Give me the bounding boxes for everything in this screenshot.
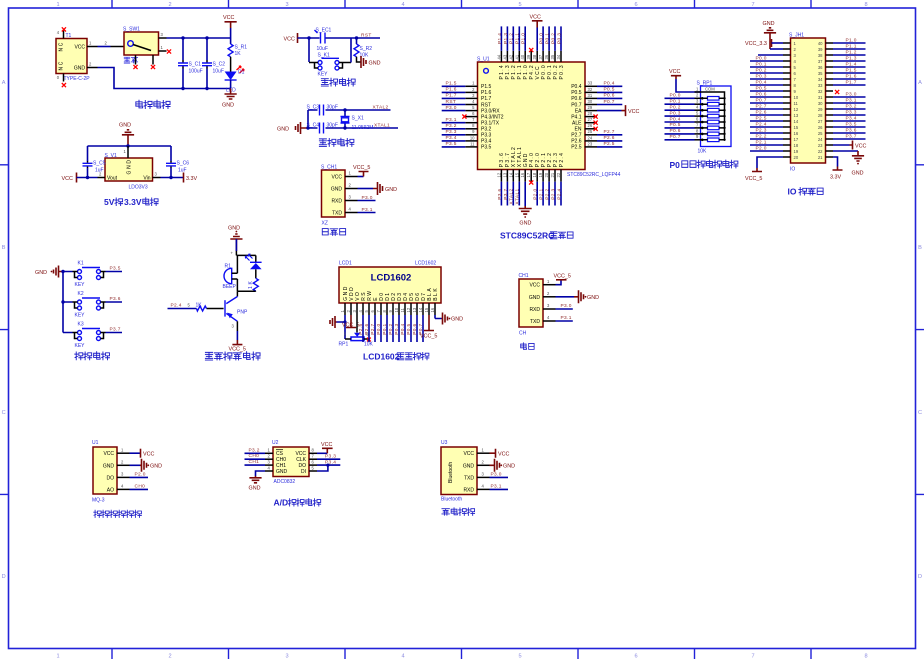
svg-text:27: 27 <box>588 117 593 122</box>
wire <box>512 182 514 206</box>
svg-text:S_C4: S_C4 <box>307 123 320 129</box>
svg-text:GND: GND <box>331 187 343 193</box>
svg-text:S_C3: S_C3 <box>307 105 320 111</box>
JH1 pin 7 <box>783 78 791 80</box>
V1 right pin <box>153 177 161 179</box>
svg-text:STC89C52RC: STC89C52RC <box>500 231 554 241</box>
wire <box>597 134 622 136</box>
MCU pin 23 P2.5 <box>585 146 598 148</box>
MCU pin 25 P2.7 <box>585 134 598 136</box>
JH1 pin 28 <box>826 114 834 116</box>
MCU pin 38 VCC <box>536 51 538 62</box>
svg-text:XTAL2: XTAL2 <box>373 105 389 111</box>
svg-text:P3.2: P3.2 <box>846 103 857 109</box>
wire <box>750 144 783 146</box>
resistor 1K (vertical) <box>253 278 258 291</box>
svg-text:P2.6: P2.6 <box>604 135 615 141</box>
svg-text:P3.1: P3.1 <box>491 484 502 490</box>
power port VCC <box>850 141 853 150</box>
svg-text:GND: GND <box>150 464 162 470</box>
svg-text:P3.1/TX: P3.1/TX <box>481 121 500 127</box>
svg-text:8: 8 <box>864 2 867 8</box>
svg-text:18: 18 <box>794 143 799 148</box>
svg-text:8: 8 <box>864 654 867 659</box>
svg-text:U2: U2 <box>272 440 279 446</box>
JH1 pin 25 <box>826 132 834 134</box>
wire <box>368 315 370 342</box>
wire <box>750 78 783 80</box>
capacitor S_C1 100uF <box>182 38 184 60</box>
svg-text:P1.6: P1.6 <box>846 73 857 79</box>
wire <box>833 42 866 44</box>
svg-text:P2.1: P2.1 <box>756 139 767 145</box>
svg-text:S_JH1: S_JH1 <box>789 33 804 39</box>
MCU pin 12 P3.6 <box>500 170 502 182</box>
svg-text:P3.0: P3.0 <box>362 195 373 201</box>
wire <box>506 26 508 50</box>
JH1 pin 20 <box>783 156 791 158</box>
power port VCC_5 <box>556 280 562 285</box>
T1 top pin <box>63 31 65 39</box>
svg-text:20: 20 <box>544 172 549 177</box>
svg-text:1: 1 <box>56 2 59 8</box>
svg-text:B: B <box>2 245 6 251</box>
svg-text:P3.5: P3.5 <box>481 145 492 151</box>
RP1 pin 7 <box>695 127 701 129</box>
wire <box>833 72 866 74</box>
title 蓝牙模块 <box>442 509 449 515</box>
svg-text:TXD: TXD <box>464 475 474 481</box>
U1 pin 2 <box>117 464 130 466</box>
svg-text:GND: GND <box>519 221 531 227</box>
svg-text:10K: 10K <box>698 149 708 155</box>
svg-text:P2.4: P2.4 <box>556 189 562 200</box>
svg-text:COM: COM <box>705 87 715 92</box>
wire <box>554 26 556 50</box>
svg-text:P0.0: P0.0 <box>376 324 382 335</box>
svg-text:Bluetooth: Bluetooth <box>441 497 462 503</box>
wire <box>548 182 550 206</box>
svg-text:P1.2: P1.2 <box>509 33 515 44</box>
svg-text:VCC: VCC <box>529 283 540 289</box>
svg-text:P2.3: P2.3 <box>756 127 767 133</box>
wire <box>410 315 412 342</box>
svg-text:36: 36 <box>818 65 823 70</box>
wire <box>750 114 783 116</box>
wire pin23 to VCC <box>833 144 850 146</box>
pin-1 marker <box>484 68 489 73</box>
connector T1 TYPE-C-2P <box>56 39 87 74</box>
svg-text:29: 29 <box>588 105 593 110</box>
svg-text:P0.3: P0.3 <box>670 110 681 116</box>
svg-text:6: 6 <box>634 2 637 8</box>
MCU pin 29 EA <box>585 110 598 112</box>
wire <box>833 108 866 110</box>
MCU pin 13 P3.7 <box>506 170 508 182</box>
svg-text:31: 31 <box>818 95 823 100</box>
svg-text:40: 40 <box>520 54 525 59</box>
svg-text:38: 38 <box>532 54 537 59</box>
wire <box>597 85 622 87</box>
svg-text:1: 1 <box>56 654 59 659</box>
svg-text:VCC: VCC <box>74 45 85 51</box>
wire <box>665 127 695 129</box>
svg-text:XTAL2: XTAL2 <box>509 189 515 205</box>
svg-text:PNP: PNP <box>237 310 248 316</box>
wire <box>422 315 424 342</box>
svg-text:P0.6: P0.6 <box>571 96 582 102</box>
JH1 pin 27 <box>826 120 834 122</box>
svg-text:S_R1: S_R1 <box>235 45 248 51</box>
svg-text:P3.3: P3.3 <box>846 109 857 115</box>
wire <box>833 120 866 122</box>
ground GND <box>490 459 500 472</box>
transistor Q1 PNP <box>224 300 226 316</box>
svg-text:19: 19 <box>794 149 799 154</box>
wire <box>392 315 394 342</box>
svg-text:VCC: VCC <box>62 176 73 182</box>
svg-text:P0.3: P0.3 <box>756 73 767 79</box>
JH1 pin 38 <box>826 54 834 56</box>
svg-text:P0.6: P0.6 <box>604 93 615 99</box>
svg-text:P2.6: P2.6 <box>364 324 370 335</box>
svg-text:P2.0: P2.0 <box>533 189 539 200</box>
wire <box>168 308 197 310</box>
wire <box>665 109 695 111</box>
svg-text:4: 4 <box>401 654 404 659</box>
MCU pin 15 XTAL1 <box>518 170 520 182</box>
wire pin21 to 3.3V <box>833 157 838 167</box>
MCU pin 35 P0.2 <box>554 51 556 62</box>
svg-text:CH0: CH0 <box>135 484 146 490</box>
JH1 pin 17 <box>783 138 791 140</box>
svg-text:P3.0: P3.0 <box>561 303 572 309</box>
svg-text:P3.1: P3.1 <box>561 315 572 321</box>
svg-text:P3.1: P3.1 <box>846 97 857 103</box>
svg-text:P2.4: P2.4 <box>559 152 565 168</box>
svg-text:GND: GND <box>276 469 288 475</box>
svg-text:33: 33 <box>818 83 823 88</box>
wire left drop <box>308 38 310 62</box>
wire <box>442 97 466 99</box>
JH1 pin 11 <box>783 102 791 104</box>
MCU pin 14 XTAL2 <box>512 170 514 182</box>
svg-text:C: C <box>918 410 922 416</box>
svg-text:IO: IO <box>790 167 795 173</box>
svg-text:XTAL1: XTAL1 <box>374 123 390 129</box>
LED branch <box>255 255 257 262</box>
svg-text:7: 7 <box>751 2 754 8</box>
wire <box>750 138 783 140</box>
svg-text:3.3V: 3.3V <box>124 197 142 207</box>
wire <box>548 26 550 50</box>
wire to VCC power port <box>597 110 622 112</box>
svg-text:BLK: BLK <box>433 287 439 301</box>
svg-text:39: 39 <box>818 47 823 52</box>
svg-text:P0.0: P0.0 <box>756 55 767 61</box>
JH1 pin 29 <box>826 108 834 110</box>
svg-text:P0: P0 <box>670 160 681 170</box>
svg-text:LDO3V3: LDO3V3 <box>129 185 148 191</box>
JH1 pin 30 <box>826 102 834 104</box>
wire <box>750 108 783 110</box>
svg-text:RST: RST <box>446 99 457 105</box>
power port VCC_5 (pin2 VDD) <box>346 315 356 328</box>
svg-text:P0.7: P0.7 <box>571 102 582 108</box>
svg-text:5: 5 <box>518 2 521 8</box>
title 按键电路 <box>75 352 110 360</box>
svg-text:P0.2: P0.2 <box>550 33 556 44</box>
no-ERC cross <box>594 115 598 119</box>
JH1 pin 6 <box>783 72 791 74</box>
svg-text:VCC_5: VCC_5 <box>353 165 370 171</box>
svg-text:TXD: TXD <box>530 319 540 325</box>
MCU pin 22 P2.4 <box>560 170 562 182</box>
svg-text:P2.3: P2.3 <box>550 189 556 200</box>
svg-text:P2.7: P2.7 <box>604 129 615 135</box>
ground GND sideways <box>574 290 584 303</box>
LED D1 <box>225 72 237 81</box>
svg-text:P0.4: P0.4 <box>400 324 406 335</box>
JH1 pin 13 <box>783 114 791 116</box>
svg-text:36: 36 <box>544 54 549 59</box>
wire <box>536 182 538 206</box>
wire <box>416 315 418 342</box>
wire from VCC to RP1 common <box>676 79 701 92</box>
no-ERC cross <box>594 121 598 125</box>
svg-text:D: D <box>2 574 6 580</box>
svg-text:Vout: Vout <box>107 176 118 182</box>
svg-text:P0.6: P0.6 <box>412 324 418 335</box>
U3 pin 2 <box>477 464 490 466</box>
svg-text:1K: 1K <box>235 51 242 57</box>
wire pin20 to VCC_5 <box>757 157 783 168</box>
resistor S_R1 1K <box>228 44 233 57</box>
wire pin2 to GND <box>556 296 575 298</box>
svg-text:P1.7: P1.7 <box>446 93 457 99</box>
svg-text:11: 11 <box>400 307 405 312</box>
svg-text:VCC_5: VCC_5 <box>745 176 762 182</box>
wire pin3 <box>130 476 149 478</box>
svg-text:VCC: VCC <box>530 15 541 21</box>
svg-text:P2.7: P2.7 <box>370 324 376 335</box>
svg-text:GND: GND <box>385 187 397 193</box>
MCU pin 41 P1.1 <box>518 51 520 62</box>
svg-text:D: D <box>918 574 922 580</box>
svg-text:S_C6: S_C6 <box>177 161 190 167</box>
svg-text:P3.6: P3.6 <box>846 127 857 133</box>
JH1 pin 5 <box>783 66 791 68</box>
svg-text:S_V1: S_V1 <box>105 153 117 159</box>
svg-text:11.0592M: 11.0592M <box>352 125 374 131</box>
resistor element 1 of RP1 <box>708 97 720 101</box>
U2 pin 6 <box>309 464 317 466</box>
svg-text:25: 25 <box>588 129 593 134</box>
wire rail <box>298 37 381 39</box>
svg-text:RXD: RXD <box>529 307 540 313</box>
svg-text:P0.5: P0.5 <box>604 87 615 93</box>
svg-text:VCC: VCC <box>628 109 639 115</box>
wire <box>560 182 562 206</box>
wire <box>750 96 783 98</box>
ground GND <box>225 89 237 100</box>
svg-text:P2.5: P2.5 <box>604 141 615 147</box>
svg-text:GND: GND <box>503 464 515 470</box>
svg-text:P0.1: P0.1 <box>382 324 388 335</box>
svg-text:U3: U3 <box>441 440 448 446</box>
svg-text:P0.3: P0.3 <box>556 33 562 44</box>
svg-text:P1.5: P1.5 <box>446 81 457 87</box>
svg-text:KEY: KEY <box>75 313 86 319</box>
svg-text:GND: GND <box>74 66 86 72</box>
svg-text:Vin: Vin <box>143 176 150 182</box>
MCU pin 32 P0.5 <box>585 91 598 93</box>
svg-text:P0.4: P0.4 <box>604 81 615 87</box>
wire pin4 to GND <box>256 471 266 476</box>
wire pin6 <box>317 464 340 466</box>
svg-text:29: 29 <box>818 107 823 112</box>
svg-text:P2.1: P2.1 <box>539 189 545 200</box>
svg-text:17: 17 <box>526 172 531 177</box>
svg-text:P3.1: P3.1 <box>446 117 457 123</box>
resistor element 7 of RP1 <box>708 132 720 136</box>
MCU pin 26 EN <box>585 128 598 130</box>
svg-text:23: 23 <box>818 143 823 148</box>
svg-text:P3.7: P3.7 <box>846 133 857 139</box>
svg-text:LCD1602: LCD1602 <box>363 352 400 362</box>
svg-text:21: 21 <box>818 155 823 160</box>
CH1 pin 1 <box>543 284 556 286</box>
wire pin7 <box>317 458 340 460</box>
MCU pin 21 P2.3 <box>554 170 556 182</box>
wire <box>63 271 122 273</box>
wire to transistor collector <box>236 291 238 296</box>
svg-text:11: 11 <box>794 101 799 106</box>
wire pin1 / power port VCC <box>130 452 141 454</box>
RP1 pin 9 <box>695 139 701 141</box>
wire pin4 <box>130 488 149 490</box>
wire bottom row <box>308 127 398 129</box>
svg-text:VCC_5: VCC_5 <box>229 347 246 353</box>
svg-text:DI: DI <box>301 469 306 475</box>
power port VCC_5 <box>358 176 364 178</box>
svg-text:RST: RST <box>481 102 491 108</box>
svg-text:VCC: VCC <box>284 37 295 43</box>
wire T1 GND return <box>87 67 98 69</box>
JH1 pin 24 <box>826 138 834 140</box>
svg-text:Bluetooth: Bluetooth <box>448 462 454 483</box>
svg-text:14: 14 <box>508 172 513 177</box>
svg-text:P0.1: P0.1 <box>670 99 681 105</box>
capacitor S_C5 1uF <box>87 146 89 161</box>
JH1 pin 8 <box>783 84 791 86</box>
U2 pin 4 <box>265 470 273 472</box>
wire <box>750 60 783 62</box>
svg-text:16: 16 <box>430 307 435 312</box>
MCU pin 17 P4.0 <box>530 170 532 182</box>
svg-text:15: 15 <box>514 172 519 177</box>
svg-text:17: 17 <box>794 137 799 142</box>
SW1 pin3 <box>159 37 167 39</box>
MCU pin 28 P4.1 <box>585 116 598 118</box>
RP1 pin 6 <box>695 121 701 123</box>
wire <box>833 48 866 50</box>
svg-text:10uF: 10uF <box>317 46 328 52</box>
MCU pin 43 P1.3 <box>506 51 508 62</box>
JH1 pin 33 <box>826 84 834 86</box>
wire top rail <box>88 145 172 147</box>
resistor element 5 of RP1 <box>708 120 720 124</box>
wire pin2 / ground GND <box>130 464 141 466</box>
svg-text:3.3V: 3.3V <box>830 175 841 181</box>
svg-text:44: 44 <box>496 54 501 59</box>
wire <box>512 26 514 50</box>
MCU pin 31 P0.6 <box>585 97 598 99</box>
svg-text:CH1: CH1 <box>249 459 260 465</box>
JH1 pin 14 <box>783 120 791 122</box>
svg-text:P3.7: P3.7 <box>503 189 509 200</box>
JH1 pin 37 <box>826 60 834 62</box>
regulator S_V1 LDO3V3 <box>105 158 153 181</box>
svg-text:P0.4: P0.4 <box>571 84 582 90</box>
wire <box>554 182 556 206</box>
svg-text:GND: GND <box>451 317 463 323</box>
svg-text:P0.7: P0.7 <box>604 99 615 105</box>
U1 pin 1 <box>117 452 130 454</box>
wire top rail <box>167 37 231 39</box>
svg-text:P3.3: P3.3 <box>446 129 457 135</box>
LED (triangle up) <box>250 261 262 263</box>
svg-text:P3.6: P3.6 <box>110 296 121 302</box>
wire <box>750 90 783 92</box>
svg-text:2: 2 <box>168 654 171 659</box>
ground GND <box>519 206 532 214</box>
wire <box>833 66 866 68</box>
wire <box>833 138 866 140</box>
U2 pin 3 <box>265 464 273 466</box>
svg-text:P3.2: P3.2 <box>446 123 457 129</box>
MCU pin 9 P3.3 <box>465 134 477 136</box>
wire <box>597 146 622 148</box>
svg-text:43: 43 <box>502 54 507 59</box>
wire pin8 / power port VCC <box>317 452 327 454</box>
wire <box>750 150 783 152</box>
svg-text:P0.6: P0.6 <box>756 91 767 97</box>
svg-text:32: 32 <box>818 89 823 94</box>
svg-text:18: 18 <box>532 172 537 177</box>
svg-text:P0.5: P0.5 <box>756 85 767 91</box>
svg-text:S_R2: S_R2 <box>360 46 373 52</box>
wire <box>597 91 622 93</box>
switch S_SW1 <box>124 32 159 55</box>
svg-text:P3.5: P3.5 <box>110 265 121 271</box>
wire <box>770 48 783 50</box>
wire <box>524 26 526 50</box>
svg-text:14: 14 <box>418 307 423 312</box>
wire <box>833 54 866 56</box>
MCU pin 34 P0.3 <box>560 51 562 62</box>
svg-text:P0.5: P0.5 <box>406 324 412 335</box>
svg-text:100uF: 100uF <box>189 69 203 75</box>
wire <box>665 133 695 135</box>
svg-text:P2.6: P2.6 <box>756 109 767 115</box>
svg-text:16: 16 <box>794 131 799 136</box>
svg-text:GND: GND <box>119 123 131 129</box>
base resistor 1K <box>207 308 224 310</box>
svg-text:P1.4: P1.4 <box>846 61 857 67</box>
svg-text:34: 34 <box>556 54 561 59</box>
svg-text:K1: K1 <box>78 261 84 267</box>
